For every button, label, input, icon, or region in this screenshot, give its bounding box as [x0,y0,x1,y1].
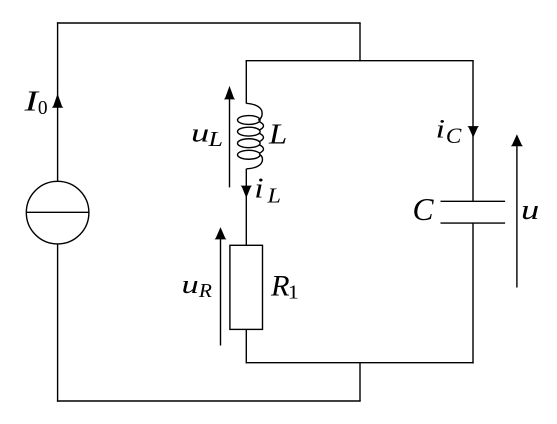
label u_L main [191,118,209,147]
label C [413,192,435,227]
svg-text:R: R [198,278,212,301]
inductor L connector 1-2 [259,122,263,131]
svg-text:L: L [268,117,287,150]
current source I0 horizontal bar [26,211,89,213]
voltage arrow u head [511,134,523,146]
voltage arrow u_R head [215,227,227,239]
voltage arrow u_R shaft [220,238,222,346]
label u [521,194,539,226]
wire: inductor branch top segment [245,60,247,104]
wire: outer top rail [57,22,361,24]
inductor L connector 2-3 [259,133,263,142]
svg-text:i: i [254,172,263,204]
label R_1 main [270,270,290,302]
label i_C subscript [446,124,462,148]
inductor L coil entry hook [246,103,262,120]
svg-text:0: 0 [38,97,48,119]
svg-text:L: L [207,128,223,151]
svg-text:C: C [446,124,462,148]
inductor L connector 3-4 [259,145,263,154]
capacitor C top plate [441,200,506,202]
current arrow i_L head [241,186,252,198]
svg-text:R: R [270,270,290,302]
label R_1 subscript [288,280,299,303]
label i_L subscript [266,184,281,207]
svg-text:1: 1 [288,280,299,303]
wire: outer bottom rail [57,400,361,402]
svg-text:u: u [182,270,199,299]
voltage arrow u_L head [224,86,235,100]
svg-text:i: i [436,114,445,143]
svg-text:u: u [521,194,539,226]
wire: inner top rail [246,60,474,62]
current arrow i_C head [467,126,479,138]
wire: capacitor branch bottom segment [472,223,474,363]
resistor R1 body [230,245,263,329]
inductor L coil exit hook [247,154,263,168]
label i_C main [436,114,445,143]
inductor L loop 2 [238,127,261,136]
wire: resistor bottom segment [245,329,247,363]
inductor L loop 3 [238,139,261,148]
label L [268,117,287,150]
voltage arrow u shaft [516,145,518,288]
current arrow I_0 head [52,94,63,108]
wire: inductor-to-resistor segment [245,169,247,246]
voltage arrow u_L shaft [229,97,231,187]
wire: inner bottom rail [246,362,474,364]
svg-text:C: C [413,192,435,227]
wire: outer right lower drop [359,362,361,401]
capacitor C bottom plate [441,222,506,224]
inductor L loop 1 [238,116,261,125]
svg-text:L: L [266,184,281,207]
wire: outer right upper drop [359,23,361,61]
svg-text:u: u [191,118,209,147]
current source I0 circle [26,181,89,244]
label i_L main [254,172,263,204]
wire: capacitor branch top segment [472,60,474,201]
inductor L loop 4 [238,150,261,159]
wire: left branch upper segment [57,22,59,181]
label u_L subscript [207,128,223,151]
label I_0 subscript [38,97,48,119]
label u_R subscript [198,278,212,301]
label I_0 main [23,85,40,117]
label u_R main [182,270,199,299]
wire: left branch lower segment [57,244,59,402]
